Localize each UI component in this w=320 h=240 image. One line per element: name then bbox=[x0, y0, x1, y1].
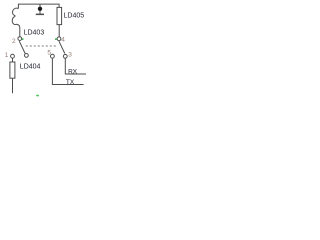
green mark bottom bbox=[36, 95, 39, 97]
switch arm right bbox=[59, 41, 65, 53]
resistor LD404 body bbox=[10, 62, 15, 78]
switch pin 2 circle bbox=[18, 37, 22, 41]
green dot pin 2 bbox=[22, 38, 24, 40]
svg-text:4: 4 bbox=[61, 37, 65, 44]
svg-text:TX: TX bbox=[66, 79, 75, 86]
terminal bar bbox=[36, 14, 44, 16]
switch pin 4 circle bbox=[57, 37, 61, 41]
svg-text:LD405: LD405 bbox=[64, 13, 85, 20]
wire pin 1 to LD404 bbox=[12, 58, 14, 62]
switch pin 3 circle bbox=[63, 54, 67, 58]
green dot pin 4 bbox=[55, 38, 57, 40]
wire pin 3 to RX bbox=[65, 58, 86, 74]
svg-text:1: 1 bbox=[5, 52, 9, 59]
dashed linkage bbox=[26, 45, 57, 47]
svg-text:LD404: LD404 bbox=[20, 63, 41, 70]
wire pin 5 to TX bbox=[52, 58, 83, 84]
svg-text:LD403: LD403 bbox=[24, 30, 45, 37]
switch throw circle (left unlabeled) bbox=[25, 54, 29, 58]
wire stub to junction dot bbox=[39, 4, 41, 14]
wire top horizontal bbox=[18, 4, 59, 9]
svg-text:5: 5 bbox=[47, 50, 51, 57]
switch pin 5 circle bbox=[51, 54, 55, 58]
svg-text:2: 2 bbox=[12, 38, 16, 45]
switch pin 1 circle bbox=[11, 54, 15, 58]
junction dot bbox=[38, 7, 42, 11]
svg-text:RX: RX bbox=[68, 69, 78, 76]
svg-text:3: 3 bbox=[68, 51, 72, 58]
inductor coil bbox=[12, 8, 20, 36]
resistor LD405 body bbox=[57, 7, 62, 24]
switch arm left bbox=[19, 41, 25, 53]
wire LD404 bottom stub bbox=[12, 78, 14, 93]
wire LD405 to pin 4 bbox=[58, 25, 60, 37]
